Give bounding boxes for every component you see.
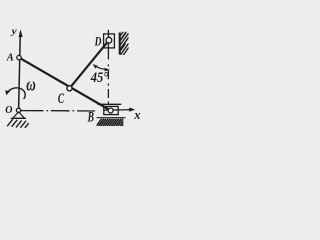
rod AB [19,58,111,111]
y axis arrowhead [19,29,23,37]
slider block B [104,106,118,114]
wall hatching at D [114,24,132,56]
x axis arrowhead [129,108,135,112]
slider B top rail [98,103,122,105]
joint D [106,37,112,43]
x axis arrow segment [105,109,132,111]
joint B [108,108,113,113]
wall line at D [119,33,121,55]
svg-text:C: C [58,90,65,107]
ground hatching under B [96,119,127,126]
svg-text:B: B [87,108,94,125]
wire: centerline B-D dash-dot [107,64,109,103]
x axis dash-dot line [21,110,95,112]
svg-text:45°: 45° [90,69,109,85]
svg-text:A: A [6,53,14,64]
svg-text:O: O [5,105,12,116]
45 arc arrowhead left [93,64,98,69]
y axis [19,32,21,110]
omega arrowhead [5,90,10,95]
pin support triangle [13,112,25,118]
guide rod at D [107,30,109,60]
angular velocity arrow omega [8,88,26,99]
slider block D [104,34,115,48]
45 degree angle arc [95,66,109,70]
joint A [17,55,21,59]
ground line at O [11,117,26,119]
svg-text:ω: ω [26,76,36,96]
svg-text:x: x [133,108,140,122]
pin support at O: pin circle [16,108,20,112]
joint C [67,86,72,91]
ground line under B [97,117,126,119]
45 arc arrowhead right [105,68,110,72]
rod CD [70,40,110,88]
svg-text:D: D [94,35,102,49]
ground hatching at O [7,119,28,128]
